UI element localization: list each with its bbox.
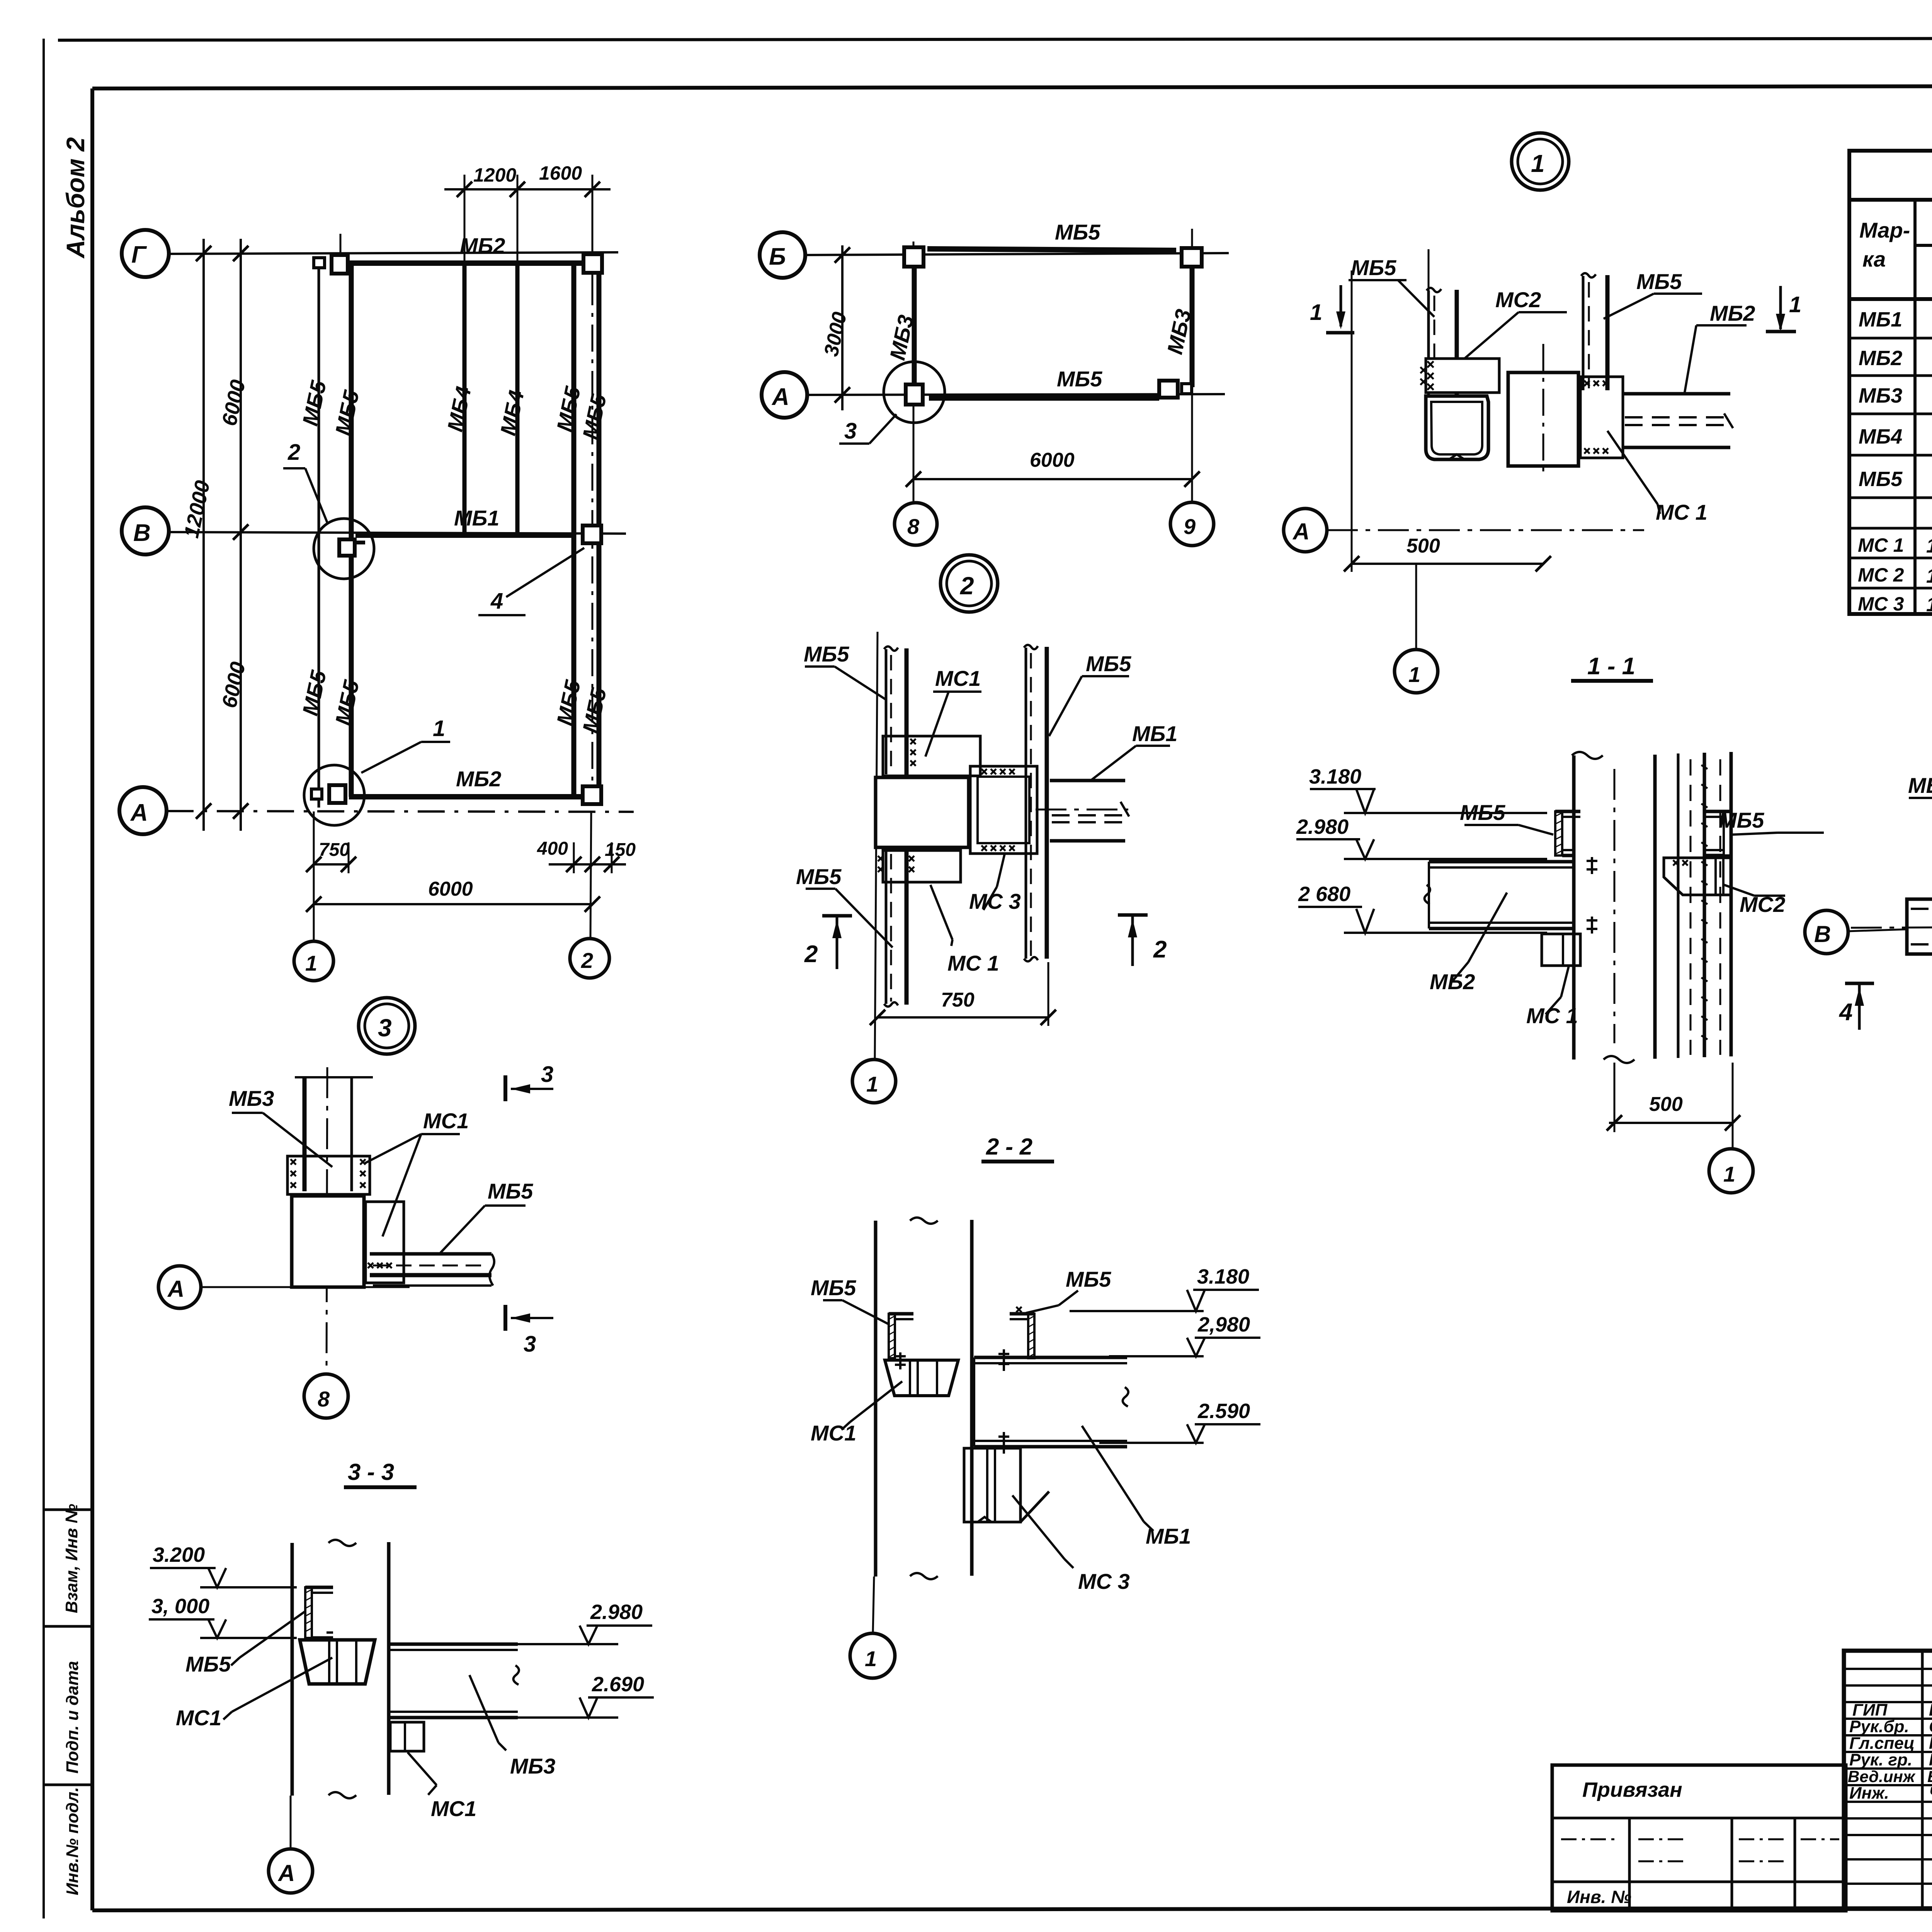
svg-text:МБ1: МБ1 xyxy=(1132,721,1177,746)
svg-text:2.980: 2.980 xyxy=(590,1600,643,1624)
svg-text:МС 2: МС 2 xyxy=(1858,564,1904,586)
axis А line xyxy=(807,394,1225,395)
square Б-9 xyxy=(1182,248,1202,267)
dim 6000 xyxy=(913,478,1192,480)
weld x left column xyxy=(1420,367,1465,385)
svg-text:МБ3: МБ3 xyxy=(229,1086,274,1111)
МБ5 channel left xyxy=(1555,811,1562,855)
axis А line xyxy=(167,811,634,812)
svg-text:9: 9 xyxy=(1184,514,1196,539)
svg-text:1.020-1/83 вып.7-1 мс 28 ( 17: 1.020-1/83 вып.7-1 мс 28 ( 17шт.) xyxy=(1926,535,1932,557)
svg-text:МС 1: МС 1 xyxy=(947,951,999,975)
signature table columns xyxy=(1921,1651,1924,1909)
svg-text:4: 4 xyxy=(490,588,503,614)
upper beam МБ5 xyxy=(885,649,888,774)
МС2 plate right xyxy=(1664,858,1731,895)
bolts at beam right xyxy=(1587,857,1597,934)
svg-text:6000: 6000 xyxy=(218,660,250,710)
svg-text:Альбом 2: Альбом 2 xyxy=(61,137,90,259)
svg-text:Сидорова: Сидорова xyxy=(1929,1717,1932,1736)
svg-text:750: 750 xyxy=(319,840,350,860)
svg-text:Рук. гр.: Рук. гр. xyxy=(1849,1750,1912,1769)
svg-text:2 680: 2 680 xyxy=(1298,883,1350,906)
axis Г line xyxy=(169,252,618,254)
svg-text:МБ4: МБ4 xyxy=(1908,773,1932,798)
svg-text:750: 750 xyxy=(941,989,975,1011)
svg-text:МБ5: МБ5 xyxy=(1066,1267,1111,1291)
svg-text:МБ2: МБ2 xyxy=(1430,969,1475,994)
svg-text:МБ1: МБ1 xyxy=(1859,308,1902,331)
beam МБ1 mid xyxy=(355,532,575,538)
elevations right xyxy=(587,1624,652,1627)
svg-text:1.438.1-3 вып.1 ОКС 2 (2шт: 1.438.1-3 вып.1 ОКС 2 (2шт.) xyxy=(1926,594,1932,616)
svg-text:Взам, Инв №: Взам, Инв № xyxy=(62,1504,81,1613)
leaders xyxy=(240,1611,305,1658)
dash-dot marks in cells xyxy=(1561,1838,1619,1840)
leader 1 xyxy=(361,742,421,773)
svg-text:2: 2 xyxy=(287,440,300,465)
squares at А-1 xyxy=(311,789,322,799)
signature table rows xyxy=(1844,1668,1932,1670)
beam МБ3 right xyxy=(1190,267,1195,387)
central column xyxy=(1508,372,1578,466)
sheet left edge xyxy=(43,39,45,1918)
section mark 1 right xyxy=(1766,330,1796,333)
leader 2 xyxy=(305,468,328,524)
Привязан box xyxy=(1552,1765,1846,1911)
svg-text:МБ5: МБ5 xyxy=(330,678,364,728)
square А-9 xyxy=(1159,381,1178,398)
svg-text:2.690: 2.690 xyxy=(592,1673,644,1696)
svg-text:Инв. №: Инв. № xyxy=(1567,1887,1631,1907)
svg-text:Бетехтин: Бетехтин xyxy=(1929,1701,1932,1719)
dim 400/150 xyxy=(549,863,626,866)
А axis line xyxy=(158,1266,201,1308)
svg-text:МБ3: МБ3 xyxy=(1859,384,1902,407)
circle А xyxy=(269,1849,313,1893)
svg-text:А: А xyxy=(771,384,789,410)
МБ2 beam xyxy=(1429,860,1573,864)
circle 1 xyxy=(852,1060,896,1103)
column axis 9 xyxy=(1191,229,1193,502)
section mark 1 left xyxy=(1326,331,1354,335)
svg-text:МБ2: МБ2 xyxy=(460,233,505,258)
elevations right xyxy=(1193,1289,1259,1291)
grid circle Б xyxy=(760,232,805,278)
svg-text:МС 1: МС 1 xyxy=(1858,534,1904,556)
svg-text:А: А xyxy=(1292,519,1310,544)
В axis circle xyxy=(1805,910,1848,954)
beam МБ4 #1 xyxy=(463,265,467,535)
circle 1 xyxy=(850,1633,895,1678)
svg-text:МС 3: МС 3 xyxy=(969,889,1021,913)
svg-text:Питьев: Питьев xyxy=(1929,1734,1932,1753)
dim 500 xyxy=(1609,1122,1733,1124)
svg-text:150: 150 xyxy=(605,840,636,860)
svg-text:В: В xyxy=(1814,921,1831,947)
svg-text:8: 8 xyxy=(907,514,920,539)
svg-text:3: 3 xyxy=(844,418,857,444)
detail circle at А-1 xyxy=(304,765,364,825)
elevation 2.680 xyxy=(1298,906,1362,908)
beam МБ2 bottom xyxy=(349,794,599,799)
leaders xyxy=(842,1300,889,1325)
svg-text:МБ5: МБ5 xyxy=(804,642,849,666)
svg-text:Инв.№ подл.: Инв.№ подл. xyxy=(63,1787,82,1895)
svg-text:1: 1 xyxy=(433,716,445,741)
column xyxy=(1572,755,1576,1060)
title 1-1 xyxy=(1571,679,1653,683)
svg-text:МБ2: МБ2 xyxy=(1710,301,1755,325)
svg-text:2 - 2: 2 - 2 xyxy=(986,1134,1032,1160)
svg-text:Рук.бр.: Рук.бр. xyxy=(1849,1717,1909,1736)
left МБ5 channel xyxy=(889,1314,895,1358)
leaders xyxy=(263,1113,332,1167)
svg-text:6000: 6000 xyxy=(1030,449,1075,471)
detail title circle 1 xyxy=(1512,133,1569,190)
svg-text:МБ1: МБ1 xyxy=(1146,1524,1191,1548)
column axis 2 dash-dot xyxy=(592,278,594,786)
svg-text:3000: 3000 xyxy=(820,310,851,358)
section marks 3 xyxy=(503,1075,507,1101)
beam МБ5 left thick xyxy=(349,263,354,797)
svg-text:1: 1 xyxy=(865,1646,877,1671)
МС3 xyxy=(970,766,1037,854)
column axis to circle 1 xyxy=(875,632,878,1060)
svg-text:1: 1 xyxy=(1531,150,1545,177)
leader 4 xyxy=(506,548,584,597)
МС1 collar xyxy=(287,1156,370,1194)
section marks 2 xyxy=(822,914,852,918)
svg-text:1600: 1600 xyxy=(539,162,582,184)
beam МБ2 to right xyxy=(1623,392,1730,396)
axis line down to circle 8 xyxy=(327,1067,327,1374)
column xyxy=(874,1221,878,1577)
grid circle А xyxy=(119,787,167,834)
svg-text:МБ5: МБ5 xyxy=(298,378,331,428)
svg-text:МБ5: МБ5 xyxy=(1859,468,1903,491)
detail circle 3 at А-8 xyxy=(884,362,945,423)
svg-text:А: А xyxy=(167,1276,184,1302)
svg-text:МБ1: МБ1 xyxy=(454,506,499,530)
svg-text:Инж.: Инж. xyxy=(1849,1784,1889,1803)
svg-text:МБ5: МБ5 xyxy=(1460,800,1505,825)
svg-text:1: 1 xyxy=(1789,292,1801,317)
drawing frame xyxy=(92,85,1932,88)
svg-text:МБ5: МБ5 xyxy=(1636,269,1682,294)
МБ1 beam xyxy=(974,1356,1127,1359)
section marks 4 xyxy=(1845,982,1874,985)
beam МБ5 right inner xyxy=(571,265,577,797)
leaders xyxy=(1519,825,1553,835)
beam МБ5 row Б xyxy=(927,249,1176,250)
svg-text:2: 2 xyxy=(960,572,974,600)
svg-text:2: 2 xyxy=(1153,936,1167,963)
svg-text:Пяткова: Пяткова xyxy=(1929,1750,1932,1769)
МБ5 beam right xyxy=(370,1252,492,1256)
svg-text:МБ5: МБ5 xyxy=(298,668,331,718)
circle 2 xyxy=(570,939,609,978)
svg-text:Привязан: Привязан xyxy=(1582,1778,1682,1801)
dim ticks on Г/В/А xyxy=(196,246,248,819)
detail circle at В-1 xyxy=(314,519,374,579)
svg-text:Чучелина: Чучелина xyxy=(1929,1784,1932,1803)
svg-text:МБ5: МБ5 xyxy=(1055,220,1100,244)
svg-text:Гл.спец: Гл.спец xyxy=(1849,1734,1915,1753)
elevations left xyxy=(150,1567,216,1569)
svg-text:МС2: МС2 xyxy=(1740,892,1785,917)
beam МБ3 top xyxy=(295,1076,373,1078)
svg-text:400: 400 xyxy=(537,838,568,859)
base sketch under left column xyxy=(1426,396,1488,459)
svg-text:4: 4 xyxy=(1838,999,1852,1026)
svg-text:МБ5: МБ5 xyxy=(1719,808,1764,832)
svg-text:Мар-: Мар- xyxy=(1859,218,1910,242)
svg-text:В: В xyxy=(133,520,151,546)
axis В line xyxy=(169,532,626,534)
svg-text:2: 2 xyxy=(581,948,593,973)
МС1 right plate xyxy=(366,1202,404,1283)
svg-text:МБ5: МБ5 xyxy=(811,1276,856,1300)
МС2 plate xyxy=(1426,359,1499,393)
svg-text:2.980: 2.980 xyxy=(1296,815,1349,838)
svg-text:МБ5: МБ5 xyxy=(1057,367,1102,391)
svg-text:Б: Б xyxy=(769,243,786,270)
svg-text:12000: 12000 xyxy=(180,478,214,540)
svg-text:6000: 6000 xyxy=(428,878,473,900)
МС1 under beam xyxy=(1542,934,1580,966)
circle 1 xyxy=(1709,1149,1753,1193)
circle 1 xyxy=(1395,650,1438,693)
svg-text:2.590: 2.590 xyxy=(1197,1400,1250,1423)
svg-text:1: 1 xyxy=(305,951,317,975)
column axis 2 top dash xyxy=(592,232,594,278)
column rect xyxy=(876,777,969,847)
top dim line 1200/1600 xyxy=(444,188,611,190)
beam МБ1 right xyxy=(1050,779,1125,782)
svg-text:МБ4: МБ4 xyxy=(442,384,476,434)
svg-text:1.020-1/83 вып.7-1 мс27 (3ш: 1.020-1/83 вып.7-1 мс27 (3шт.) xyxy=(1926,565,1932,587)
right МБ5 channel xyxy=(1028,1314,1034,1358)
square at Г-2 xyxy=(583,254,602,273)
svg-text:8: 8 xyxy=(318,1387,330,1411)
svg-text:А: А xyxy=(130,799,148,826)
svg-text:ГИП: ГИП xyxy=(1852,1701,1888,1719)
right flange with welds xyxy=(1677,753,1680,1058)
svg-text:МС 1: МС 1 xyxy=(1656,500,1708,524)
МБ5 channel right xyxy=(1724,811,1731,855)
detail title circle 3 xyxy=(359,998,415,1054)
column xyxy=(291,1543,294,1796)
grid circle Г xyxy=(122,230,169,277)
dim 750 xyxy=(314,863,349,866)
leaders xyxy=(835,667,887,700)
МС1 upper plate xyxy=(883,736,980,776)
МС3 below beam xyxy=(964,1448,1020,1522)
square Б-8 xyxy=(904,247,923,267)
left column МБ5 xyxy=(1427,291,1430,395)
svg-text:МБ5: МБ5 xyxy=(1351,255,1396,280)
svg-text:МБ3: МБ3 xyxy=(510,1754,555,1778)
svg-text:ка: ка xyxy=(1862,247,1886,271)
svg-text:МБ5: МБ5 xyxy=(185,1652,231,1676)
МС1 plate right xyxy=(1580,377,1623,458)
sheet top edge xyxy=(58,38,1932,40)
svg-text:3 - 3: 3 - 3 xyxy=(348,1459,394,1485)
dim vertical 3000 xyxy=(841,245,844,410)
svg-text:1: 1 xyxy=(1408,662,1420,687)
beam МБ4 #2 xyxy=(515,265,520,535)
circle 8 xyxy=(895,503,937,545)
bottom axes to circles xyxy=(313,811,315,941)
grid circle А xyxy=(762,372,807,418)
svg-text:МБ5: МБ5 xyxy=(330,388,364,438)
svg-text:А: А xyxy=(277,1860,295,1886)
column stub Г-1 xyxy=(340,234,342,258)
МБ3 beam right xyxy=(390,1643,518,1646)
svg-text:МБ4: МБ4 xyxy=(495,388,529,438)
squares at Г-1 xyxy=(314,258,325,268)
beam МБ3 left xyxy=(912,266,917,386)
square at А-2 xyxy=(583,786,601,804)
dim vertical 6000 xyxy=(240,239,242,831)
svg-text:3: 3 xyxy=(524,1332,536,1357)
svg-text:3: 3 xyxy=(541,1062,553,1087)
svg-text:МБ2: МБ2 xyxy=(1859,347,1902,370)
right column МБ5 xyxy=(1582,276,1585,390)
dim 6000 bottom xyxy=(314,903,592,905)
svg-text:МС1: МС1 xyxy=(431,1796,476,1821)
beam МБ2 top xyxy=(349,260,599,266)
svg-text:1 - 1: 1 - 1 xyxy=(1587,653,1635,680)
svg-text:6000: 6000 xyxy=(218,378,250,428)
svg-text:МБ5: МБ5 xyxy=(488,1179,533,1203)
column xyxy=(292,1196,364,1287)
dim 750 xyxy=(878,1016,1048,1019)
svg-text:1: 1 xyxy=(866,1072,878,1096)
svg-text:3.200: 3.200 xyxy=(153,1543,205,1566)
svg-text:Белоглазова: Белоглазова xyxy=(1927,1767,1932,1786)
МБ5 channel xyxy=(305,1587,312,1638)
svg-text:МС 3: МС 3 xyxy=(1078,1569,1130,1594)
beam МБ5 row А xyxy=(929,395,1159,401)
svg-text:МС2: МС2 xyxy=(1495,287,1541,312)
lower left beam МБ5 xyxy=(885,850,888,1004)
svg-text:Г: Г xyxy=(131,241,147,268)
leader 3 xyxy=(869,414,896,444)
svg-text:2: 2 xyxy=(804,941,818,968)
svg-text:МБ5: МБ5 xyxy=(1086,651,1131,676)
svg-text:3: 3 xyxy=(378,1014,392,1042)
svg-text:3.180: 3.180 xyxy=(1309,765,1361,788)
right beam МБ5 xyxy=(1025,648,1027,959)
circle 1 xyxy=(294,941,333,981)
square at В-2 xyxy=(583,526,601,543)
svg-text:500: 500 xyxy=(1649,1093,1683,1116)
beam МБ5 right outer xyxy=(597,270,602,794)
svg-text:МБ4: МБ4 xyxy=(1859,425,1902,448)
svg-text:1: 1 xyxy=(1723,1162,1735,1186)
square А-8 xyxy=(906,384,923,405)
svg-text:1: 1 xyxy=(1310,300,1322,325)
svg-text:МС1: МС1 xyxy=(423,1109,469,1133)
А axis xyxy=(1284,509,1327,552)
beam МБ5 left thin xyxy=(318,269,320,808)
elevation 3.180 xyxy=(1310,788,1376,790)
svg-text:Подп. и дата: Подп. и дата xyxy=(63,1661,82,1774)
МС1 bracket xyxy=(300,1640,375,1684)
circle 9 xyxy=(1170,502,1214,546)
dim vertical 12000 xyxy=(202,239,205,831)
axis Б line xyxy=(805,253,1229,255)
svg-text:3.180: 3.180 xyxy=(1197,1265,1249,1288)
circle 8 xyxy=(304,1374,348,1418)
МС1 lower plate xyxy=(883,850,961,882)
left МС1 bracket xyxy=(885,1360,958,1396)
column lines xyxy=(1913,200,1917,614)
column axis 8 xyxy=(913,241,915,503)
elevation 2.980 xyxy=(1296,838,1360,840)
svg-text:МС1: МС1 xyxy=(176,1706,221,1730)
svg-text:МС 3: МС 3 xyxy=(1858,593,1904,615)
svg-text:1200: 1200 xyxy=(473,164,516,186)
svg-text:МС1: МС1 xyxy=(811,1421,856,1445)
МБ1 beam plan xyxy=(1907,899,1932,954)
svg-text:2,980: 2,980 xyxy=(1197,1313,1250,1336)
dim 500 xyxy=(1352,563,1543,565)
svg-text:500: 500 xyxy=(1406,535,1440,557)
svg-text:МС1: МС1 xyxy=(935,666,981,690)
grid circle В xyxy=(122,507,169,554)
square at В-1 xyxy=(339,539,355,556)
svg-text:3, 000: 3, 000 xyxy=(151,1595,209,1618)
svg-text:МБ2: МБ2 xyxy=(456,767,501,791)
МС1 lower right xyxy=(390,1722,424,1751)
leaders xyxy=(1398,280,1434,317)
svg-text:МБ5: МБ5 xyxy=(796,864,842,889)
detail title circle 2 xyxy=(940,555,998,612)
svg-text:МС 1: МС 1 xyxy=(1526,1003,1578,1028)
svg-text:Вед.инж: Вед.инж xyxy=(1848,1767,1916,1786)
